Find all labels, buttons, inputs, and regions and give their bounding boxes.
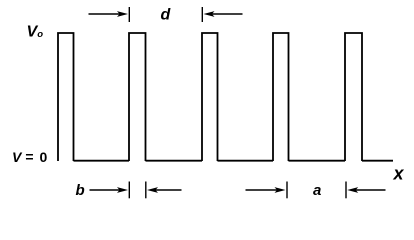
pulse 4: [273, 33, 289, 161]
dimension d: right tick: [201, 7, 203, 22]
dimension d: left arrow: [89, 7, 243, 22]
dimension d: left tick: [128, 7, 130, 22]
svg-text:a: a: [313, 182, 321, 199]
dimension b: right arrow: [147, 187, 158, 193]
pulse 1: [58, 33, 74, 161]
dimension a: right tick: [345, 182, 347, 199]
wire baseline segment 5: [362, 160, 393, 162]
dimension d: right arrow: [204, 11, 215, 17]
svg-text:=: =: [25, 149, 33, 165]
svg-text:d: d: [161, 7, 172, 24]
dimension a: left arrow: [246, 182, 386, 199]
wire baseline segment 4: [289, 160, 346, 162]
wire baseline segment 1: [74, 160, 130, 162]
svg-text:0: 0: [40, 149, 48, 165]
pulse 2: [129, 33, 146, 161]
dimension a: right arrow: [347, 187, 358, 193]
svg-text:o: o: [37, 29, 43, 40]
wire baseline segment 3: [218, 160, 274, 162]
wire baseline segment 2: [146, 160, 203, 162]
pulse 3: [202, 33, 218, 161]
svg-text:x: x: [393, 164, 405, 184]
dimension b: left arrow: [90, 182, 182, 199]
dimension b: left tick: [128, 182, 130, 199]
dimension b: right tick: [145, 182, 147, 199]
pulse 5: [345, 33, 362, 161]
waveform pulse train: [58, 33, 393, 161]
svg-text:b: b: [76, 182, 85, 199]
dimension a: left tick: [286, 182, 288, 199]
